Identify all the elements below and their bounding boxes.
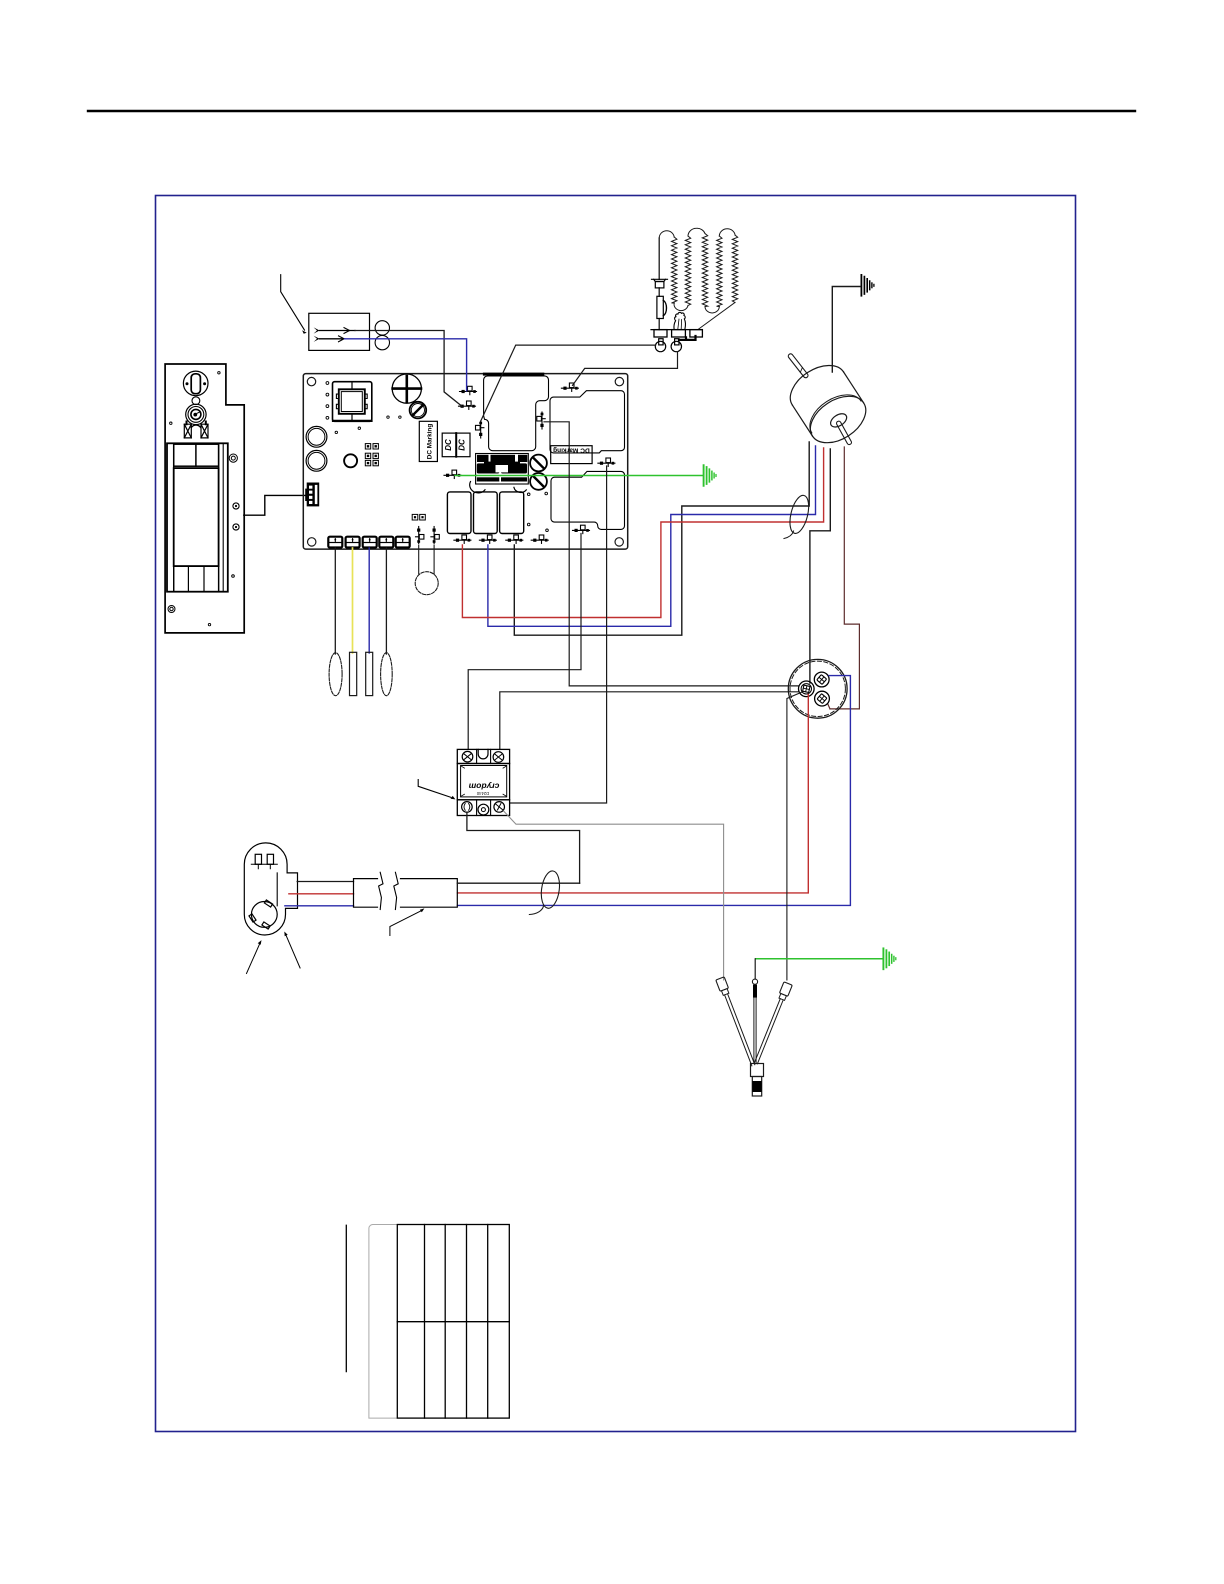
relay K1 (square, top-left of board) bbox=[333, 382, 372, 422]
compressor shell bbox=[788, 659, 847, 718]
jumper J5 (vertical, heater return) bbox=[476, 421, 484, 438]
ground symbol (motor, black) bbox=[861, 275, 874, 296]
keyhole lock bbox=[186, 397, 206, 425]
via dots bbox=[335, 416, 548, 532]
motor lead red bbox=[462, 448, 823, 618]
jumper JR (red) bbox=[454, 535, 471, 543]
terminal lug 1 bbox=[654, 330, 667, 337]
heater coil 3 bbox=[717, 229, 738, 307]
crimp splice lower bbox=[314, 336, 345, 342]
compressor blue lead bbox=[458, 676, 851, 906]
heater coil 1 bbox=[659, 231, 688, 311]
heater coil 2 bbox=[685, 228, 719, 313]
cord break marks bbox=[379, 872, 399, 909]
terminal block TB2 bbox=[346, 537, 360, 548]
CN connector to panel bbox=[305, 483, 319, 507]
jumper J10 (compressor feed) bbox=[573, 525, 590, 533]
DC Marking label (vertical) bbox=[419, 421, 437, 461]
jumper J7 (vertical, left) bbox=[416, 527, 424, 544]
motor lead brown bbox=[830, 447, 859, 709]
trimpot VR3 bbox=[530, 473, 547, 490]
lamp wire yellow bbox=[352, 548, 354, 653]
heater wire left to board bbox=[481, 345, 655, 421]
isolation region 3 (bottom right) bbox=[551, 471, 625, 529]
thermostat sensor bulb bbox=[415, 572, 438, 595]
trimpot VR1 bbox=[410, 402, 427, 419]
DC DC block bbox=[442, 433, 470, 457]
compressor terminal C bbox=[799, 681, 815, 697]
heater junction box bbox=[309, 313, 370, 350]
indicator bulb 2 bbox=[381, 653, 393, 696]
svg-text:DC: DC bbox=[457, 439, 466, 451]
jumper JX bbox=[531, 535, 548, 543]
jumper J6 (right) bbox=[598, 458, 615, 466]
ring terminal L bbox=[655, 339, 665, 352]
jumper J8 (vertical, right) bbox=[431, 527, 439, 544]
motor lead black 2 to compressor bbox=[810, 449, 830, 683]
thermistor probe right bbox=[752, 982, 793, 1065]
jumper J3 (vertical, mid) bbox=[537, 412, 545, 429]
SSR callout arrow bbox=[418, 780, 455, 800]
board wire J10 to SSR bbox=[468, 534, 581, 750]
fuse holder funnel bbox=[652, 279, 668, 288]
defrost sensor green wire bbox=[756, 958, 882, 960]
cord black to SSR junction bbox=[457, 882, 579, 884]
panel screws bbox=[168, 372, 239, 626]
indicator tube 1 bbox=[350, 652, 357, 695]
thermistor probe left bbox=[716, 977, 758, 1067]
isolation region 1 (top middle) bbox=[484, 376, 549, 451]
jumper J4 (heater line) bbox=[561, 383, 578, 391]
jumper bar bbox=[679, 336, 696, 340]
heater wire right to board bbox=[573, 352, 678, 386]
plug earth face bbox=[249, 900, 277, 929]
harness connector bbox=[751, 1064, 764, 1097]
brown lead to compressor pin bbox=[828, 704, 830, 709]
svg-text:crydom: crydom bbox=[468, 781, 499, 791]
ground symbol (green, bottom) bbox=[883, 948, 895, 969]
pad hole bbox=[344, 454, 357, 467]
header pin pair bbox=[412, 514, 425, 520]
board top bold edge bbox=[484, 373, 542, 376]
DC Marking label (inverted) bbox=[551, 446, 592, 464]
electrolytic capacitors bbox=[306, 426, 327, 471]
legend rule bbox=[345, 1225, 347, 1371]
wire panel to board connector bbox=[244, 495, 306, 515]
jumper J1 (blue feed) bbox=[460, 386, 477, 394]
defrost sensor lead bbox=[752, 979, 757, 1063]
motor ground wire bbox=[832, 287, 860, 373]
isolation region 2 (top right) bbox=[550, 391, 625, 453]
cord ferrite loop bbox=[539, 870, 562, 910]
ring terminal R bbox=[671, 339, 681, 352]
terminal block TB1 bbox=[328, 537, 342, 548]
indicator bulb 1 bbox=[329, 653, 342, 696]
top rule bbox=[88, 110, 1135, 112]
coil end lead to terminal bbox=[698, 303, 735, 330]
power plug body bbox=[244, 843, 297, 935]
compressor terminal R bbox=[815, 691, 830, 706]
igniter flame bbox=[674, 312, 686, 329]
compressor red lead bbox=[458, 695, 809, 893]
thermal fuse bbox=[657, 296, 667, 318]
plug callout arrows bbox=[247, 932, 301, 974]
board wire J3 branch bbox=[544, 422, 798, 686]
transformer lead hooks bbox=[470, 482, 527, 493]
diagram frame border bbox=[156, 196, 1076, 1432]
control panel assembly bbox=[165, 364, 244, 633]
heater terminal rail bbox=[651, 329, 702, 331]
wire loop rings bbox=[375, 321, 389, 335]
cord sheath bbox=[354, 879, 458, 908]
motor lead blue bbox=[488, 446, 816, 626]
terminal block TB4 bbox=[379, 537, 393, 548]
main control board outline bbox=[303, 374, 627, 549]
spec table bbox=[369, 1224, 397, 1418]
lock mounting bracket bbox=[184, 422, 208, 438]
relay pin dots bbox=[326, 382, 329, 420]
compressor run wire bbox=[500, 692, 798, 749]
compressor terminal S bbox=[814, 672, 829, 687]
trimpot VR2 bbox=[530, 455, 547, 472]
solid state relay SSR1 bbox=[457, 749, 509, 799]
jumper JK (black) bbox=[506, 535, 523, 543]
black wire junction box to J2 bbox=[355, 331, 462, 407]
callout arrow to junction box bbox=[281, 275, 307, 334]
svg-text:D2440: D2440 bbox=[476, 791, 489, 796]
SSR bottom terminals bbox=[457, 800, 509, 816]
toggle switch bbox=[183, 371, 208, 396]
svg-text:DC: DC bbox=[444, 439, 453, 451]
wire bundle loop (motor leads) bbox=[787, 493, 813, 535]
ground symbol (green, mid) bbox=[704, 465, 716, 486]
jumper pin grid bbox=[365, 444, 378, 466]
SSR sense wire (grey) to sensor bbox=[504, 811, 724, 980]
terminal block TB3 bbox=[363, 537, 377, 548]
fan motor M1 bbox=[768, 335, 879, 460]
terminal lug 3 bbox=[690, 330, 703, 337]
jumper J2 (black feed) bbox=[459, 401, 476, 409]
terminal block TB5 bbox=[396, 537, 410, 548]
terminal lug 2 bbox=[672, 330, 686, 337]
jumper JB (blue) bbox=[479, 535, 496, 543]
lamp wire blue bbox=[368, 548, 370, 653]
crimp splice upper bbox=[314, 327, 355, 333]
relay RY2 bbox=[474, 492, 498, 534]
compressor sensor lead bbox=[787, 692, 802, 980]
blue wire junction box to J1 bbox=[345, 339, 467, 391]
green earth wire from board bbox=[455, 475, 703, 477]
svg-text:DC Marking: DC Marking bbox=[427, 424, 434, 460]
relay RY3 bbox=[500, 492, 524, 534]
motor lead black 1 bbox=[514, 442, 809, 635]
panel slider frame bbox=[167, 443, 228, 591]
plug prongs bbox=[251, 854, 277, 868]
lamp wire black 1 bbox=[334, 548, 336, 654]
lamp wire black 2 bbox=[385, 548, 387, 654]
capacitor C1 (circle with cross) bbox=[392, 374, 421, 403]
transformer T1 bbox=[476, 454, 529, 485]
relay RY1 bbox=[447, 492, 471, 534]
sheath callout bbox=[390, 908, 425, 935]
board wire J6 to SSR bbox=[510, 466, 607, 803]
indicator tube 2 bbox=[366, 652, 373, 695]
jumper J9 (green earth) bbox=[444, 470, 461, 478]
heater coil supply wire bbox=[658, 238, 660, 330]
cord wires plug to sheath bbox=[297, 881, 353, 883]
thermostat bulb wires bbox=[419, 545, 434, 574]
mounting holes bbox=[307, 377, 623, 546]
SSR load wire to cord bbox=[467, 812, 580, 883]
